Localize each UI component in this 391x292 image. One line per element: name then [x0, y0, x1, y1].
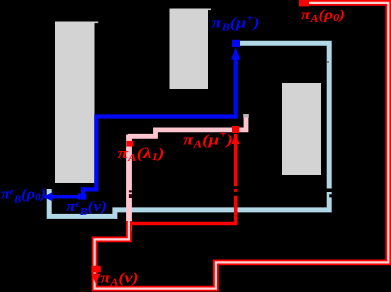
svg-text:πA(ν): πA(ν)	[101, 271, 139, 289]
red thin path gap 2	[234, 192, 238, 196]
ice-blue path gap	[326, 189, 333, 193]
svg-text:πA(λ1): πA(λ1)	[118, 146, 165, 164]
red arrowhead up pi_A(mu+)	[231, 134, 239, 144]
red square marker pi_A(mu+)	[232, 126, 239, 133]
gray rectangle middle	[170, 9, 209, 90]
svg-text:πA(ρ0): πA(ρ0)	[301, 8, 345, 25]
red square marker pi_A(v)	[91, 266, 100, 273]
pink path	[128, 115, 246, 137]
ice-blue path	[49, 43, 329, 216]
pink path dark notch 1	[129, 190, 132, 192]
pink path gray tip	[243, 114, 249, 118]
red arrowhead down pi_A(v)	[91, 274, 100, 284]
gray rectangle middle top tick	[208, 9, 211, 11]
blue square marker pi_eps_B(v)	[78, 194, 87, 200]
red ribbon outer	[95, 3, 389, 289]
blue path segment to arrow	[45, 195, 79, 199]
blue arrowhead up	[231, 47, 240, 59]
red ribbon pink core	[95, 3, 389, 289]
blue square marker pi_B(mu+)	[232, 40, 240, 47]
red thin path	[129, 134, 236, 224]
blue path main	[83, 56, 236, 198]
gray rectangle left	[55, 22, 95, 184]
red thin path gap 1	[234, 186, 238, 189]
ice-blue path gray dot	[327, 61, 329, 63]
pink path vertical	[126, 135, 132, 232]
red square marker pi_A(rho0)	[299, 0, 309, 6]
pink path dark notch 2	[129, 194, 132, 198]
ice-blue path notch	[329, 194, 333, 197]
gray rectangle right	[282, 83, 321, 175]
red square marker pi_A(lambda1)	[126, 141, 133, 147]
blue arrowhead left	[43, 192, 53, 201]
gray rectangle left top tick	[95, 22, 99, 24]
